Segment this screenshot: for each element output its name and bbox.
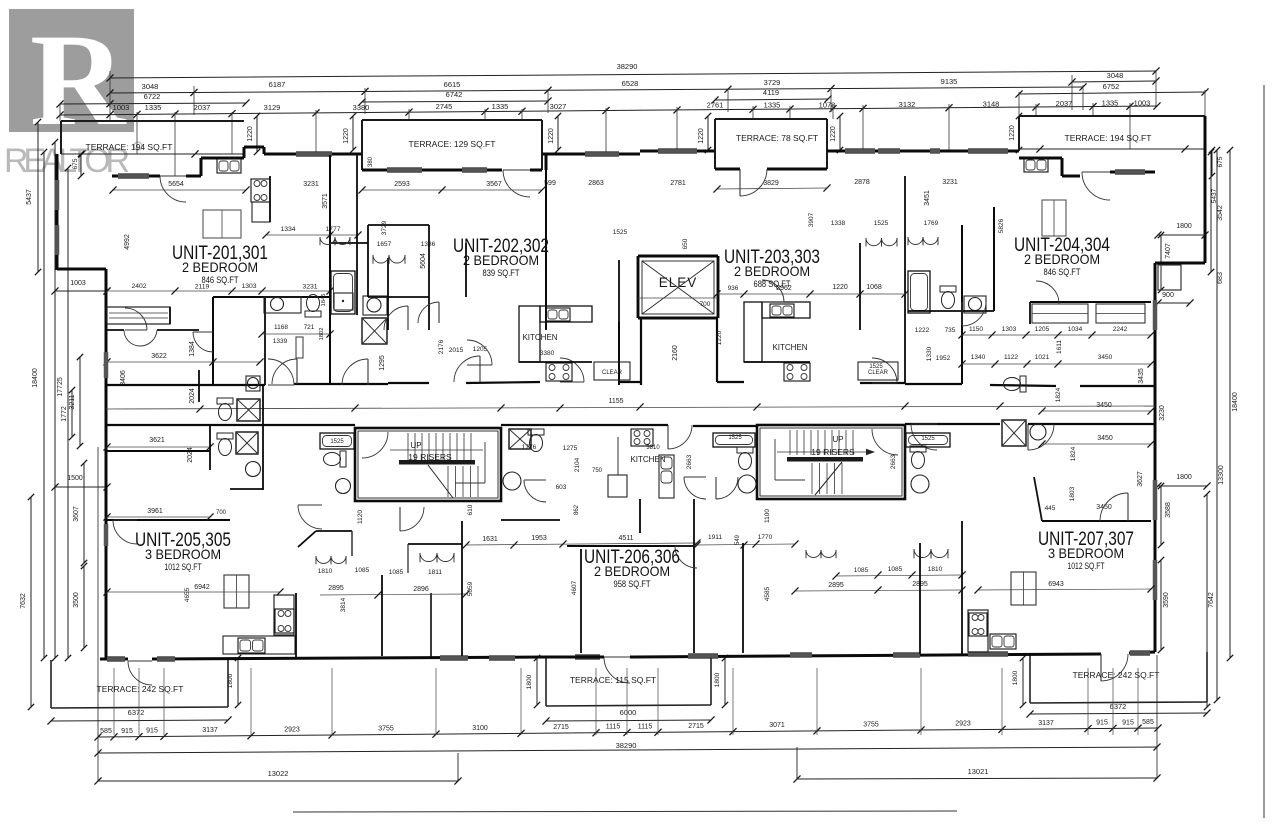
- svg-text:915: 915: [146, 728, 158, 735]
- svg-text:3406: 3406: [120, 370, 127, 386]
- svg-text:1335: 1335: [1102, 99, 1119, 108]
- svg-text:1012 SQ.FT: 1012 SQ.FT: [1068, 561, 1105, 572]
- svg-text:5059: 5059: [467, 581, 474, 596]
- svg-text:1222: 1222: [915, 327, 930, 334]
- svg-text:2895: 2895: [828, 582, 844, 589]
- svg-text:1003: 1003: [70, 280, 86, 287]
- svg-text:1340: 1340: [971, 354, 986, 361]
- svg-text:2745: 2745: [436, 102, 453, 111]
- svg-text:1034: 1034: [1068, 326, 1083, 333]
- svg-text:2715: 2715: [688, 723, 704, 730]
- svg-text:1275: 1275: [563, 445, 578, 452]
- svg-text:3148: 3148: [983, 100, 1000, 109]
- svg-text:936: 936: [728, 285, 739, 292]
- svg-text:1220: 1220: [247, 126, 254, 142]
- svg-text:1824: 1824: [1070, 446, 1077, 461]
- svg-text:38290: 38290: [616, 741, 637, 750]
- svg-text:1800: 1800: [1176, 223, 1192, 230]
- svg-text:1611: 1611: [1056, 340, 1063, 354]
- svg-text:UP: UP: [832, 435, 843, 444]
- svg-text:2024: 2024: [187, 447, 194, 463]
- svg-text:1953: 1953: [531, 535, 547, 542]
- svg-text:3567: 3567: [486, 181, 502, 188]
- svg-text:1800: 1800: [1176, 474, 1192, 481]
- svg-text:2663: 2663: [890, 454, 897, 469]
- svg-text:ELEV: ELEV: [659, 275, 698, 290]
- svg-text:38290: 38290: [617, 62, 638, 71]
- svg-text:2242: 2242: [1113, 326, 1128, 333]
- svg-text:1085: 1085: [355, 567, 370, 574]
- svg-text:3829: 3829: [763, 180, 779, 187]
- svg-text:2715: 2715: [553, 724, 569, 731]
- svg-text:6742: 6742: [446, 90, 463, 99]
- svg-text:UP: UP: [410, 441, 421, 450]
- svg-text:CLEAR: CLEAR: [868, 370, 889, 376]
- svg-text:603: 603: [556, 484, 567, 491]
- svg-text:1205: 1205: [473, 346, 488, 353]
- svg-text:2878: 2878: [854, 179, 870, 186]
- svg-text:3542: 3542: [1217, 205, 1224, 221]
- svg-text:6528: 6528: [622, 79, 639, 88]
- svg-text:3048: 3048: [142, 82, 159, 91]
- svg-text:3814: 3814: [340, 597, 347, 612]
- svg-text:3132: 3132: [899, 100, 916, 109]
- svg-text:1003: 1003: [1134, 99, 1151, 108]
- svg-text:KITCHEN: KITCHEN: [630, 455, 665, 464]
- svg-text:1811: 1811: [428, 569, 442, 576]
- svg-text:1770: 1770: [758, 534, 773, 541]
- svg-text:2895: 2895: [328, 585, 344, 592]
- svg-text:18400: 18400: [32, 368, 39, 388]
- svg-text:6942: 6942: [194, 584, 210, 591]
- svg-text:5437: 5437: [1211, 188, 1218, 203]
- svg-text:1220: 1220: [698, 128, 705, 144]
- svg-text:TERRACE: 78 SQ.FT: TERRACE: 78 SQ.FT: [736, 133, 818, 143]
- svg-text:1803: 1803: [1069, 486, 1076, 501]
- svg-text:1155: 1155: [608, 398, 623, 405]
- svg-text:1769: 1769: [924, 220, 939, 227]
- svg-text:4585: 4585: [764, 586, 771, 601]
- svg-text:1810: 1810: [318, 568, 333, 575]
- svg-text:585: 585: [1142, 719, 1154, 726]
- svg-text:1800: 1800: [714, 672, 721, 687]
- svg-text:3380: 3380: [540, 350, 555, 357]
- svg-text:2 BEDROOM: 2 BEDROOM: [463, 252, 539, 268]
- svg-text:1115: 1115: [638, 723, 653, 730]
- svg-text:1115: 1115: [606, 724, 621, 731]
- svg-text:TERRACE: 242 SQ.FT: TERRACE: 242 SQ.FT: [1073, 670, 1160, 680]
- svg-text:3729: 3729: [381, 220, 388, 235]
- svg-text:700: 700: [700, 301, 711, 308]
- svg-text:3961: 3961: [147, 508, 163, 515]
- svg-text:1334: 1334: [280, 226, 295, 233]
- svg-text:3450: 3450: [1096, 402, 1112, 409]
- svg-text:549: 549: [735, 534, 741, 545]
- svg-text:1085: 1085: [888, 566, 903, 573]
- svg-text:6943: 6943: [1048, 581, 1064, 588]
- svg-text:1220: 1220: [832, 284, 848, 291]
- svg-text:735: 735: [945, 327, 956, 334]
- svg-text:1525: 1525: [728, 435, 742, 441]
- svg-text:2037: 2037: [1056, 99, 1073, 108]
- svg-text:2863: 2863: [588, 180, 604, 187]
- svg-text:17725: 17725: [57, 377, 64, 397]
- svg-text:2402: 2402: [131, 283, 146, 290]
- svg-text:1085: 1085: [854, 567, 869, 574]
- svg-text:3 BEDROOM: 3 BEDROOM: [145, 546, 221, 562]
- svg-text:TERRACE: 194 SQ.FT: TERRACE: 194 SQ.FT: [86, 142, 173, 152]
- svg-text:700: 700: [216, 510, 227, 516]
- svg-text:3755: 3755: [863, 721, 879, 728]
- svg-text:1120: 1120: [357, 510, 364, 524]
- svg-text:1777: 1777: [325, 226, 340, 233]
- svg-text:1220: 1220: [830, 126, 837, 142]
- svg-text:3048: 3048: [1107, 71, 1124, 80]
- svg-text:1085: 1085: [389, 569, 404, 576]
- svg-text:3380: 3380: [353, 103, 370, 112]
- svg-text:6372: 6372: [1110, 702, 1127, 711]
- svg-text:2896: 2896: [413, 586, 429, 593]
- svg-text:4655: 4655: [184, 587, 191, 602]
- svg-text:1336: 1336: [421, 241, 436, 248]
- svg-text:5437: 5437: [26, 189, 33, 205]
- svg-text:18400: 18400: [1232, 392, 1239, 412]
- svg-text:1800: 1800: [227, 673, 234, 688]
- svg-text:1845: 1845: [321, 294, 327, 307]
- svg-text:6752: 6752: [1103, 82, 1120, 91]
- svg-text:TERRACE: 129 SQ.FT: TERRACE: 129 SQ.FT: [409, 139, 496, 149]
- svg-text:2781: 2781: [670, 180, 686, 187]
- svg-text:915: 915: [1096, 719, 1108, 726]
- svg-text:3100: 3100: [472, 725, 488, 732]
- svg-text:4607: 4607: [571, 580, 578, 595]
- svg-text:3500: 3500: [73, 592, 80, 608]
- svg-text:1330: 1330: [926, 346, 933, 361]
- svg-text:1500: 1500: [67, 475, 83, 482]
- svg-text:1911: 1911: [708, 534, 722, 541]
- svg-text:1631: 1631: [482, 536, 498, 543]
- svg-text:6615: 6615: [444, 80, 461, 89]
- svg-text:3137: 3137: [1038, 720, 1054, 727]
- svg-text:1122: 1122: [1004, 354, 1018, 361]
- svg-text:3907: 3907: [808, 212, 815, 227]
- svg-text:846 SQ.FT: 846 SQ.FT: [202, 275, 239, 286]
- svg-text:650: 650: [682, 238, 689, 249]
- svg-text:683: 683: [1217, 272, 1224, 284]
- svg-text:3231: 3231: [303, 181, 319, 188]
- svg-text:1335: 1335: [145, 103, 162, 112]
- svg-text:380: 380: [368, 156, 374, 167]
- svg-text:7632: 7632: [20, 593, 27, 609]
- svg-text:1295: 1295: [379, 355, 386, 371]
- svg-text:1003: 1003: [113, 103, 130, 112]
- svg-text:3137: 3137: [202, 727, 218, 734]
- svg-text:900: 900: [1162, 292, 1174, 299]
- svg-text:19 RISERS: 19 RISERS: [408, 452, 452, 462]
- svg-text:1021: 1021: [1035, 354, 1050, 361]
- svg-text:2923: 2923: [955, 721, 971, 728]
- svg-text:1150: 1150: [969, 326, 983, 333]
- svg-text:1339: 1339: [273, 338, 288, 345]
- svg-text:2104: 2104: [574, 457, 581, 472]
- svg-text:1525: 1525: [613, 229, 628, 236]
- svg-text:1303: 1303: [1002, 326, 1017, 333]
- svg-text:3755: 3755: [378, 726, 394, 733]
- svg-text:3810: 3810: [646, 445, 660, 451]
- svg-text:2037: 2037: [194, 103, 211, 112]
- svg-text:1525: 1525: [330, 439, 344, 445]
- svg-text:2593: 2593: [394, 181, 410, 188]
- svg-text:CLEAR: CLEAR: [602, 370, 623, 376]
- svg-text:13300: 13300: [1218, 465, 1225, 485]
- svg-text:915: 915: [1122, 719, 1134, 726]
- svg-text:1952: 1952: [936, 355, 951, 362]
- svg-text:6372: 6372: [128, 708, 145, 717]
- svg-text:1068: 1068: [866, 284, 882, 291]
- svg-text:TERRACE: 242 SQ.FT: TERRACE: 242 SQ.FT: [97, 684, 184, 694]
- svg-text:1220: 1220: [343, 128, 350, 144]
- svg-text:2663: 2663: [686, 454, 693, 469]
- svg-text:3129: 3129: [264, 103, 281, 112]
- svg-text:1338: 1338: [831, 220, 846, 227]
- svg-text:839 SQ.FT: 839 SQ.FT: [483, 268, 520, 279]
- svg-text:688 SQ.FT: 688 SQ.FT: [754, 279, 791, 290]
- svg-text:445: 445: [1045, 505, 1056, 512]
- svg-text:4119: 4119: [763, 88, 779, 97]
- svg-text:915: 915: [121, 728, 133, 735]
- svg-text:1525: 1525: [921, 436, 935, 442]
- svg-text:3450: 3450: [1096, 504, 1112, 511]
- svg-text:675: 675: [1217, 156, 1224, 167]
- svg-text:3621: 3621: [149, 437, 165, 444]
- svg-text:721: 721: [304, 324, 315, 331]
- svg-text:5604: 5604: [420, 253, 427, 269]
- svg-text:2 BEDROOM: 2 BEDROOM: [594, 563, 670, 579]
- svg-text:2761: 2761: [707, 101, 724, 110]
- svg-text:3230: 3230: [1159, 405, 1166, 421]
- svg-text:2 BEDROOM: 2 BEDROOM: [1024, 251, 1100, 267]
- svg-text:3450: 3450: [1098, 354, 1113, 361]
- svg-text:1303: 1303: [241, 283, 256, 290]
- svg-text:3607: 3607: [73, 506, 80, 522]
- svg-text:6722: 6722: [144, 92, 161, 101]
- svg-text:1220: 1220: [716, 330, 723, 345]
- svg-text:1100: 1100: [764, 509, 771, 523]
- svg-text:1168: 1168: [274, 324, 288, 331]
- svg-text:KITCHEN: KITCHEN: [772, 343, 807, 352]
- svg-text:1824: 1824: [1055, 387, 1062, 402]
- svg-text:2015: 2015: [449, 347, 464, 354]
- svg-text:1810: 1810: [928, 566, 943, 573]
- svg-text:2160: 2160: [672, 345, 679, 361]
- svg-text:2024: 2024: [189, 388, 196, 404]
- svg-text:6000: 6000: [620, 708, 637, 717]
- svg-text:19 RISERS: 19 RISERS: [811, 447, 855, 457]
- svg-text:3435: 3435: [1138, 368, 1145, 384]
- svg-text:3071: 3071: [769, 722, 785, 729]
- svg-text:1800: 1800: [526, 674, 533, 689]
- svg-text:6187: 6187: [269, 80, 286, 89]
- svg-text:5826: 5826: [998, 218, 1005, 233]
- svg-text:5654: 5654: [168, 181, 184, 188]
- svg-text:1012 SQ.FT: 1012 SQ.FT: [165, 562, 202, 573]
- svg-text:846 SQ.FT: 846 SQ.FT: [1044, 267, 1081, 278]
- svg-text:4992: 4992: [124, 234, 131, 250]
- svg-text:3571: 3571: [322, 193, 329, 209]
- svg-text:3231: 3231: [302, 284, 317, 291]
- svg-text:2 BEDROOM: 2 BEDROOM: [734, 263, 810, 279]
- svg-text:1205: 1205: [1035, 326, 1050, 333]
- svg-text:2176: 2176: [438, 339, 445, 354]
- svg-text:13021: 13021: [968, 767, 989, 776]
- svg-text:3450: 3450: [1097, 435, 1113, 442]
- svg-text:862: 862: [574, 504, 580, 515]
- svg-text:750: 750: [592, 468, 603, 474]
- svg-text:3590: 3590: [1163, 592, 1170, 608]
- svg-text:7642: 7642: [1208, 592, 1215, 608]
- svg-text:9135: 9135: [941, 77, 958, 86]
- svg-text:3027: 3027: [550, 102, 567, 111]
- svg-text:TERRACE: 194 SQ.FT: TERRACE: 194 SQ.FT: [1065, 133, 1152, 143]
- svg-text:7407: 7407: [1165, 243, 1172, 259]
- svg-text:1384: 1384: [189, 341, 196, 357]
- svg-text:1335: 1335: [492, 102, 509, 111]
- svg-text:KITCHEN: KITCHEN: [522, 333, 557, 342]
- svg-text:1772: 1772: [61, 406, 68, 422]
- svg-text:599: 599: [544, 180, 556, 187]
- svg-text:1335: 1335: [764, 101, 781, 110]
- svg-text:4511: 4511: [618, 535, 633, 542]
- svg-text:1220: 1220: [1009, 125, 1016, 141]
- svg-text:1525: 1525: [874, 220, 889, 227]
- svg-text:1525: 1525: [869, 364, 883, 370]
- svg-text:2 BEDROOM: 2 BEDROOM: [182, 259, 258, 275]
- svg-text:1220: 1220: [548, 128, 555, 144]
- svg-text:3729: 3729: [764, 78, 781, 87]
- svg-text:13022: 13022: [268, 769, 289, 778]
- svg-text:675: 675: [72, 158, 79, 169]
- svg-text:R: R: [30, 6, 127, 153]
- svg-text:585: 585: [100, 728, 112, 735]
- svg-text:958 SQ.FT: 958 SQ.FT: [614, 579, 651, 590]
- svg-text:3 BEDROOM: 3 BEDROOM: [1048, 545, 1124, 561]
- svg-text:3231: 3231: [942, 179, 958, 186]
- svg-text:1800: 1800: [1012, 670, 1019, 685]
- svg-text:1657: 1657: [377, 241, 392, 248]
- svg-text:610: 610: [467, 504, 474, 515]
- svg-text:3588: 3588: [1165, 502, 1172, 518]
- svg-text:3451: 3451: [924, 190, 931, 206]
- svg-text:3622: 3622: [151, 353, 167, 360]
- svg-text:2923: 2923: [284, 726, 300, 733]
- svg-text:3627: 3627: [1137, 471, 1144, 487]
